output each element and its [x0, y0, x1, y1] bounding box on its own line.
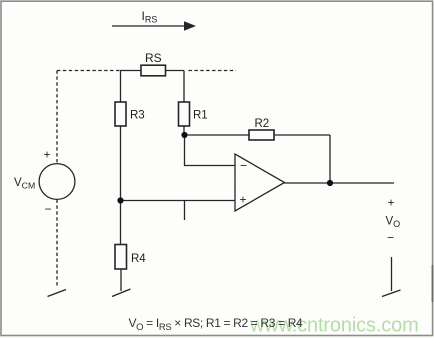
svg-text:+: + — [44, 148, 51, 162]
wire R1 top — [183, 71, 185, 103]
wire RS left — [120, 70, 141, 72]
right border darker segment — [432, 265, 434, 302]
svg-text:+: + — [388, 196, 395, 210]
ground wire at output — [391, 257, 393, 291]
node A junction dot — [181, 132, 187, 138]
svg-text:R2: R2 — [255, 118, 270, 130]
resistor R3 body — [115, 102, 126, 126]
wire feedback down — [329, 135, 331, 183]
resistor RS body — [141, 65, 166, 76]
wire R4 bottom — [120, 269, 122, 291]
dashed wire VCM top — [56, 71, 58, 165]
wire R2 right — [274, 134, 330, 136]
wire R3 bottom to R4 top — [120, 126, 122, 245]
svg-text:+: + — [240, 193, 247, 207]
resistor R4 body — [115, 245, 127, 270]
dashed rail left horizontal — [57, 70, 120, 72]
wire noninverting input — [121, 200, 236, 202]
wire RS right — [166, 70, 185, 72]
resistor R2 body — [249, 130, 274, 140]
svg-text:R1: R1 — [193, 110, 208, 122]
arrowhead of IRS — [184, 21, 196, 30]
op-amp U1 triangle — [235, 154, 285, 211]
source VCM circle — [39, 164, 75, 200]
ground slash at output — [382, 290, 401, 297]
wire node A to R2 — [185, 134, 250, 136]
wire stub below noninverting input — [184, 201, 186, 221]
svg-text:−: − — [240, 159, 247, 173]
ground slash under VCM — [48, 290, 67, 297]
output node junction dot — [327, 180, 333, 186]
svg-text:R3: R3 — [130, 110, 145, 122]
wire IRS arrow shaft — [112, 25, 186, 27]
wire op-amp output — [285, 182, 395, 184]
dashed rail right horizontal — [189, 70, 237, 72]
wire R1 bottom to node A — [183, 126, 185, 135]
svg-text:−: − — [387, 231, 394, 245]
ground slash under R4 — [112, 289, 131, 297]
node B junction dot (R3/R4 tap) — [117, 197, 123, 203]
dashed wire VCM bottom — [56, 200, 58, 288]
svg-text:RS: RS — [145, 51, 162, 65]
wire node A down to inverting input — [185, 135, 236, 166]
svg-text:R4: R4 — [131, 253, 146, 265]
wire R3 top — [120, 71, 122, 103]
svg-text:−: − — [45, 202, 52, 216]
resistor R1 body — [179, 102, 190, 126]
